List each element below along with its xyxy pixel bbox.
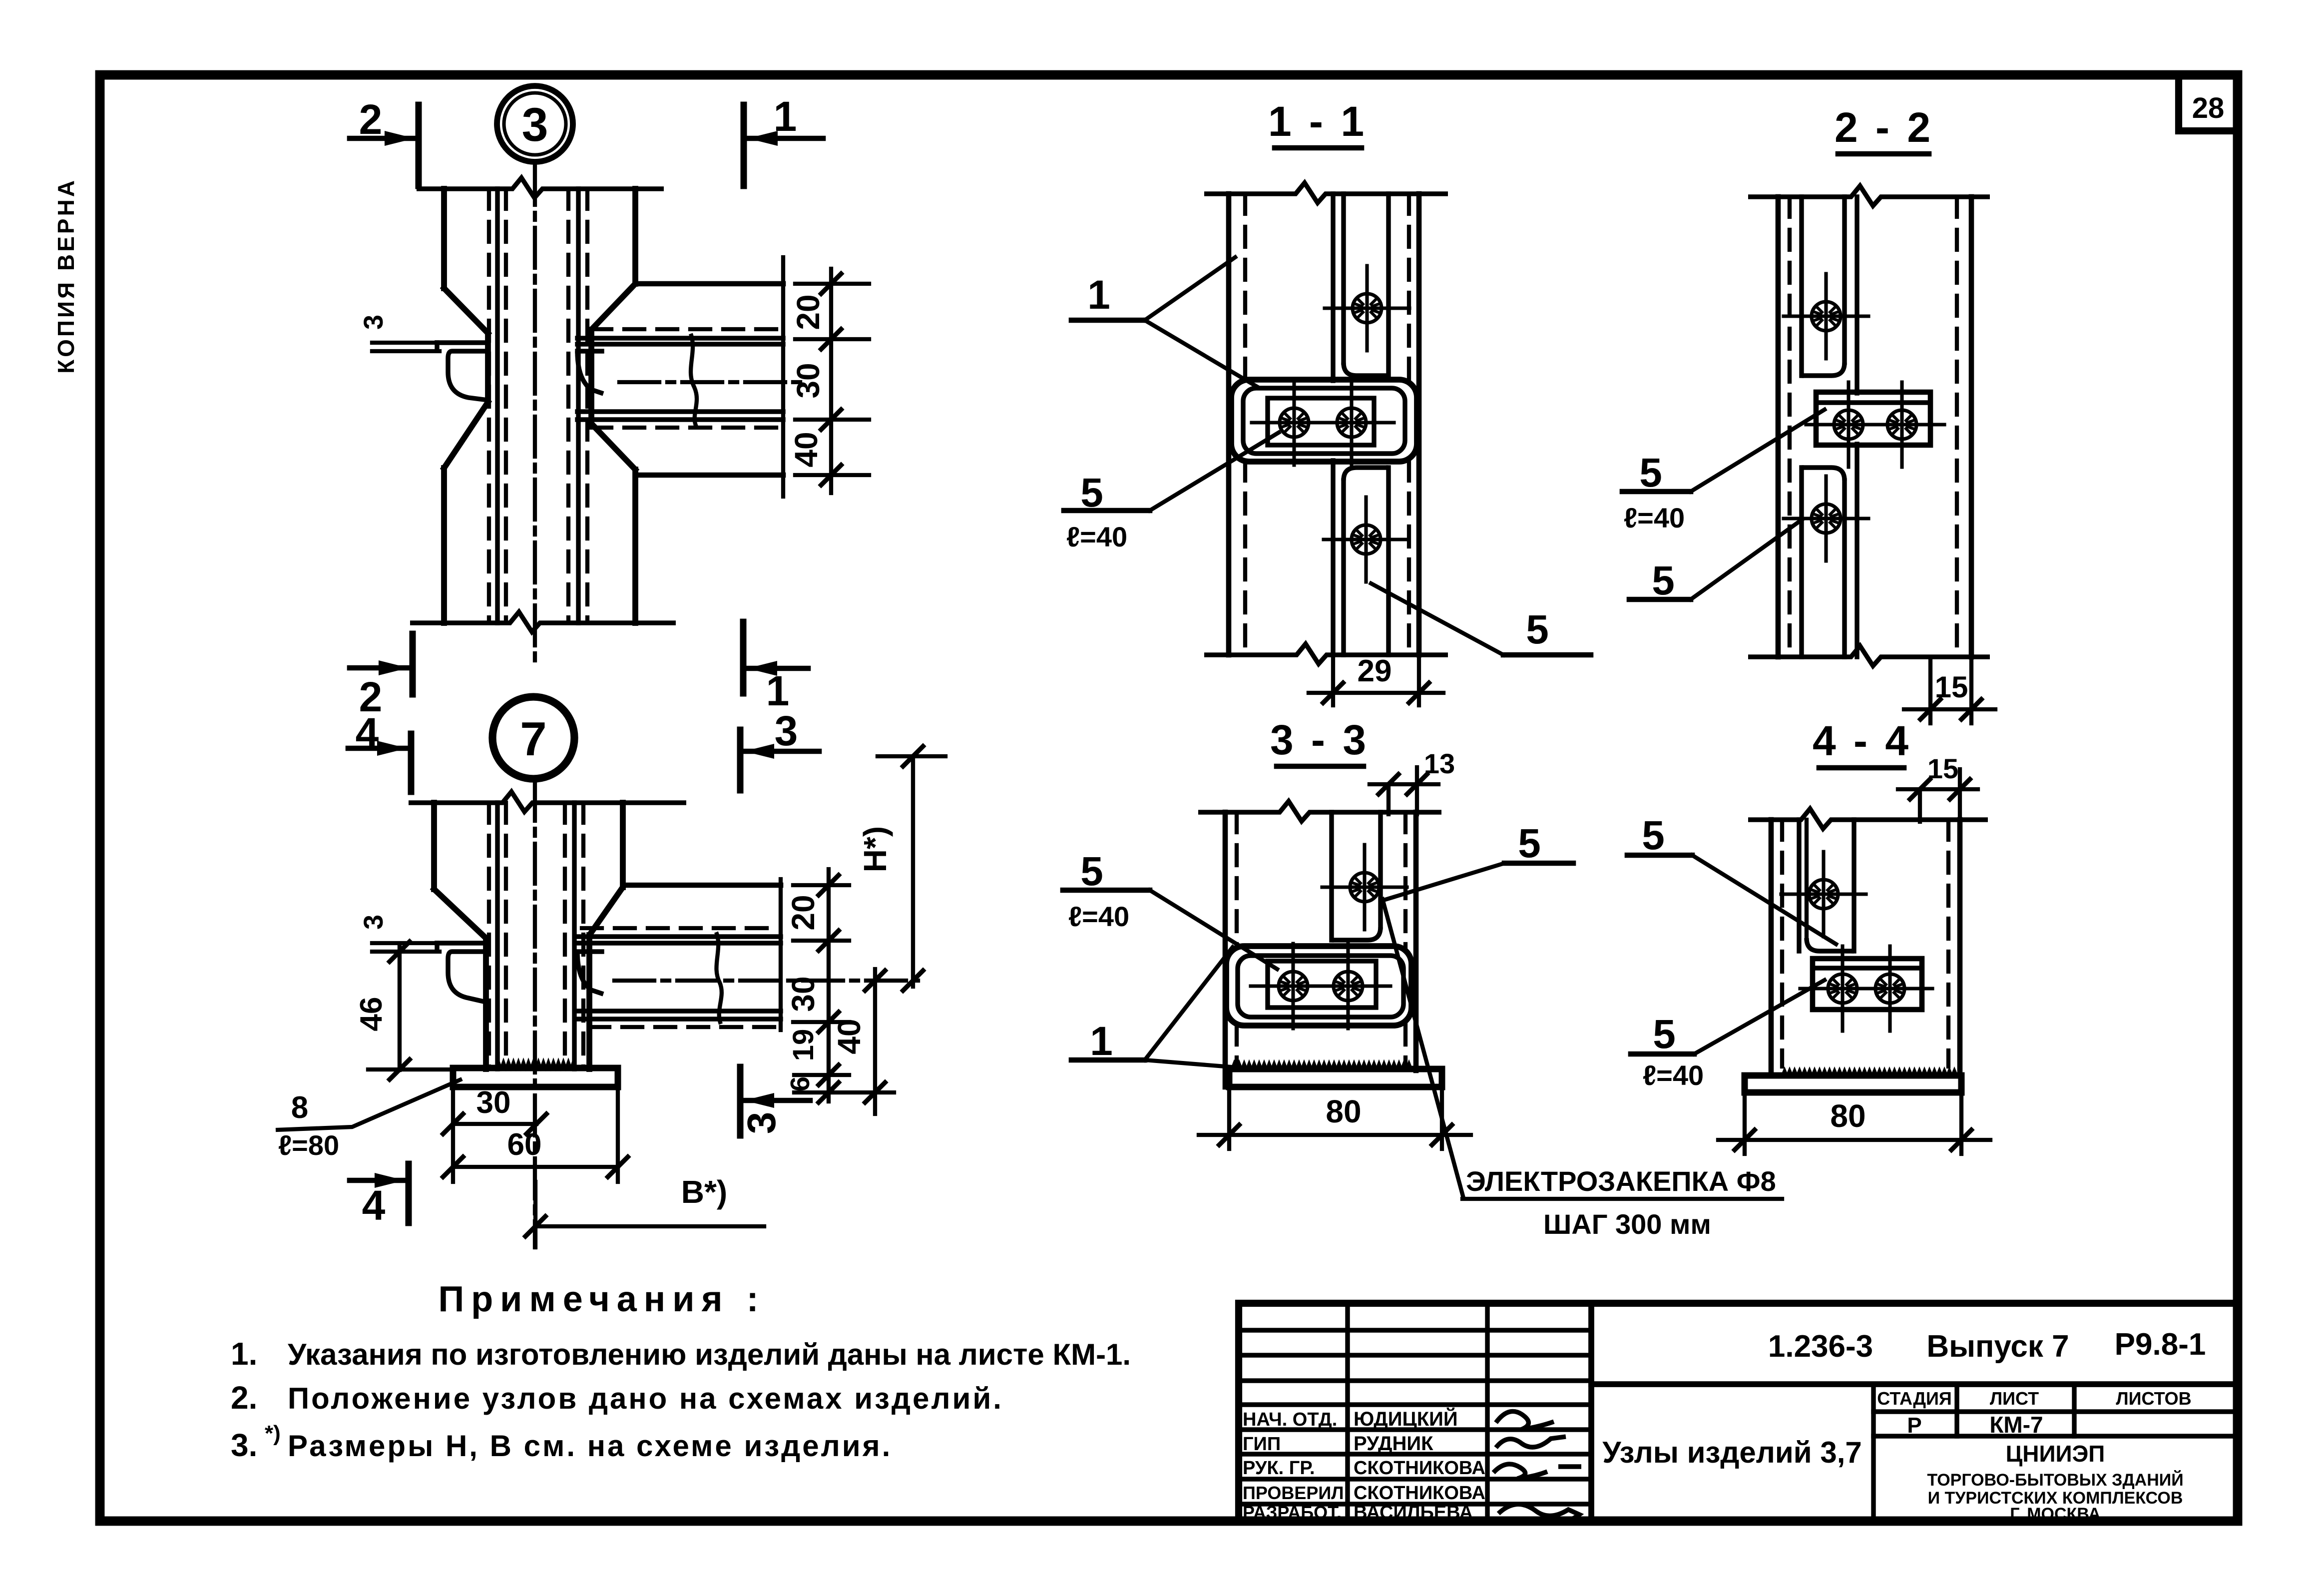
svg-text:40: 40 [788,432,824,467]
svg-text:ТОРГОВО-БЫТОВЫХ ЗДАНИЙ: ТОРГОВО-БЫТОВЫХ ЗДАНИЙ [1927,1470,2183,1490]
svg-text:Н*): Н*) [857,826,893,872]
svg-text:30: 30 [476,1085,511,1120]
svg-text:ℓ=40: ℓ=40 [1624,502,1685,533]
svg-text:30: 30 [790,363,826,398]
svg-text:Указания по изготовлению издел: Указания по изготовлению изделий даны на… [288,1338,1131,1371]
svg-text:В*): В*) [681,1174,727,1210]
svg-text:1 - 1: 1 - 1 [1268,98,1367,145]
svg-text:6: 6 [785,1076,815,1091]
svg-text:СКОТНИКОВА: СКОТНИКОВА [1354,1483,1485,1504]
svg-text:29: 29 [1358,654,1392,688]
svg-text:ЛИСТОВ: ЛИСТОВ [2116,1388,2191,1409]
svg-text:5: 5 [1526,607,1549,652]
svg-text:15: 15 [1935,670,1968,704]
svg-text:ГИП: ГИП [1243,1434,1281,1455]
svg-text:Узлы изделий 3,7: Узлы изделий 3,7 [1602,1436,1862,1469]
svg-text:ЮДИЦКИЙ: ЮДИЦКИЙ [1354,1407,1458,1430]
svg-text:КМ-7: КМ-7 [1989,1412,2043,1438]
svg-text:3: 3 [775,707,798,754]
svg-text:4: 4 [356,709,379,756]
svg-text:19: 19 [787,1029,820,1061]
svg-text:Р: Р [1907,1413,1921,1438]
svg-text:ПРОВЕРИЛ: ПРОВЕРИЛ [1243,1483,1344,1503]
svg-text:3: 3 [359,315,389,330]
svg-text:4 - 4: 4 - 4 [1813,717,1911,764]
svg-text:5: 5 [1642,813,1665,858]
svg-text:3 - 3: 3 - 3 [1270,716,1369,763]
svg-text:НАЧ. ОТД.: НАЧ. ОТД. [1243,1409,1337,1430]
svg-text:1.236-3: 1.236-3 [1768,1329,1873,1364]
svg-text:30: 30 [785,976,821,1012]
svg-text:Примечания :: Примечания : [438,1279,765,1319]
svg-text:РУК. ГР.: РУК. ГР. [1243,1458,1315,1479]
svg-text:5: 5 [1639,450,1662,496]
svg-text:ЭЛЕКТРОЗАКЕПКА Ф8: ЭЛЕКТРОЗАКЕПКА Ф8 [1466,1165,1776,1197]
svg-text:20: 20 [790,294,826,330]
svg-text:20: 20 [785,895,821,930]
svg-text:1: 1 [1087,272,1110,318]
svg-text:60: 60 [507,1127,542,1162]
svg-text:2.: 2. [231,1380,257,1416]
svg-text:4: 4 [362,1182,386,1229]
svg-text:2: 2 [359,96,383,143]
svg-text:80: 80 [1830,1098,1865,1134]
svg-text:3: 3 [359,915,389,930]
svg-text:ШАГ 300 мм: ШАГ 300 мм [1543,1208,1711,1240]
svg-text:Р9.8-1: Р9.8-1 [2115,1327,2206,1362]
svg-text:КОПИЯ ВЕРНА: КОПИЯ ВЕРНА [53,178,79,374]
svg-text:Положение узлов дано на схема: Положение узлов дано на схемах изделий. [288,1382,1003,1415]
svg-text:28: 28 [2192,92,2225,124]
svg-text:Выпуск 7: Выпуск 7 [1926,1329,2069,1364]
svg-text:ВАСИЛЬЕВА: ВАСИЛЬЕВА [1354,1502,1473,1523]
svg-text:ℓ=40: ℓ=40 [1066,521,1127,552]
svg-text:5: 5 [1653,1012,1676,1057]
svg-text:ℓ=80: ℓ=80 [278,1129,339,1161]
svg-text:46: 46 [354,997,389,1032]
svg-text:ℓ=40: ℓ=40 [1643,1059,1704,1091]
svg-text:5: 5 [1518,821,1541,866]
svg-text:ЦНИИЭП: ЦНИИЭП [2006,1441,2105,1467]
svg-text:РАЗРАБОТ.: РАЗРАБОТ. [1243,1502,1342,1523]
svg-text:*): *) [265,1421,281,1446]
svg-text:8: 8 [291,1090,308,1125]
svg-text:1: 1 [1090,1019,1113,1064]
svg-text:3.: 3. [231,1427,257,1463]
svg-text:3: 3 [522,98,548,151]
svg-text:1: 1 [774,93,797,140]
svg-text:ЛИСТ: ЛИСТ [1990,1388,2039,1409]
svg-text:Размеры Н, В см. на схеме изд: Размеры Н, В см. на схеме изделия. [288,1429,892,1463]
svg-text:ℓ=40: ℓ=40 [1068,901,1129,932]
svg-text:7: 7 [520,712,546,766]
svg-text:80: 80 [1326,1093,1361,1129]
svg-text:5: 5 [1652,558,1675,603]
svg-text:СТАДИЯ: СТАДИЯ [1877,1388,1952,1409]
svg-text:2 - 2: 2 - 2 [1835,104,1933,151]
svg-text:3: 3 [739,1112,784,1134]
svg-text:1.: 1. [231,1336,257,1372]
svg-text:СКОТНИКОВА: СКОТНИКОВА [1354,1458,1485,1479]
svg-text:РУДНИК: РУДНИК [1354,1433,1433,1455]
svg-text:Г. МОСКВА: Г. МОСКВА [2010,1505,2100,1524]
svg-text:5: 5 [1080,849,1103,894]
